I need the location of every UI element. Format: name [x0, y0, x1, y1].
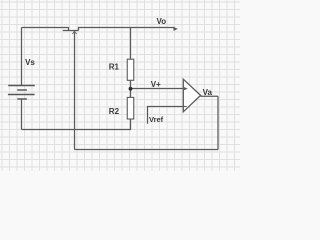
resistor R1 — [127, 59, 134, 80]
svg-text:Va: Va — [203, 88, 213, 97]
wire feedback vertical from junction down — [74, 31, 76, 150]
wire R1 to node V+ — [130, 80, 132, 89]
node V+ junction dot — [129, 87, 133, 91]
svg-text:R1: R1 — [109, 63, 120, 72]
wire Vs positive lead — [21, 28, 23, 86]
wire top net: junction to output arrow — [79, 28, 175, 31]
wire op-amp output — [201, 95, 219, 97]
wire feedback bottom horizontal — [75, 149, 219, 151]
arrowhead on feedback wire into Vo node — [72, 31, 76, 34]
wire feedback right vertical up to op-amp output — [217, 96, 219, 149]
svg-text:Vo: Vo — [157, 17, 167, 26]
wire top net to R1 — [130, 28, 132, 60]
wire node V+ to R2 — [130, 89, 132, 98]
svg-text:Vs: Vs — [25, 58, 35, 67]
wire V+ to op-amp non-inverting input — [131, 88, 184, 90]
op-amp non-inverting input arrow mark — [184, 87, 188, 90]
svg-text:R2: R2 — [109, 107, 120, 116]
wire top net: Vs positive to junction — [22, 28, 69, 31]
resistor R2 — [127, 97, 134, 119]
wire Vref stub to op-amp inverting input — [148, 107, 184, 124]
output arrow Vo — [173, 27, 178, 31]
svg-text:V+: V+ — [151, 80, 161, 89]
voltage source Vs battery plates — [8, 86, 35, 100]
node Vo tap junction bar — [63, 30, 79, 32]
wire Vs negative lead — [21, 99, 23, 130]
op-amp inverting input minus mark — [184, 106, 187, 108]
op-amp U1 triangle — [183, 79, 200, 112]
wire bottom return from Vs to R2 — [22, 119, 131, 130]
svg-text:Vref: Vref — [149, 115, 164, 124]
